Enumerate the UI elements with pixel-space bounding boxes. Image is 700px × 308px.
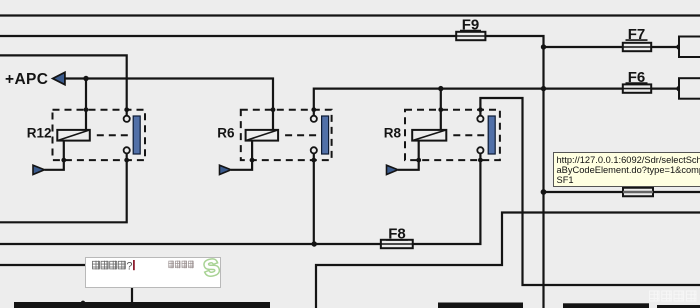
relay R6 contact terminal circle (bottom) bbox=[311, 147, 317, 153]
wire R6 contact to F6 rail bbox=[314, 89, 679, 116]
input text 唰唰啪啪 (pseudo glyphs) bbox=[92, 260, 133, 272]
watermark 汽车之家 bbox=[649, 291, 696, 302]
wire branch to R12 contact bbox=[0, 55, 127, 115]
fuse F9 body bbox=[456, 32, 485, 40]
relay R12 input arrow bbox=[33, 165, 45, 174]
wire F8 rail up to R8 contact bottom bbox=[0, 153, 480, 244]
pin R6 coil- on enclosure bbox=[250, 158, 255, 163]
pin R8 coil+ on enclosure bbox=[438, 107, 443, 112]
wire bus top rail bbox=[0, 14, 700, 16]
label F7 bbox=[626, 26, 648, 43]
wire R6 contact bottom drop bbox=[313, 153, 315, 244]
relay R12 contact blade (blue bar) bbox=[133, 116, 140, 154]
wire +APC branch to R12 coil bbox=[85, 79, 87, 130]
IME hint 临时拼音 (pseudo glyphs) bbox=[168, 261, 193, 269]
wire R6 coil return to arrow bbox=[231, 141, 252, 170]
wire SF1 rail bbox=[544, 191, 700, 193]
node +APC arrow bbox=[53, 72, 65, 84]
relay R12 coil bbox=[57, 130, 90, 141]
connector bar bottom-far-right bbox=[657, 305, 700, 308]
relay R8 contact blade (blue bar) bbox=[488, 116, 495, 154]
relay R12 contact terminal circle (bottom) bbox=[124, 147, 130, 153]
node R6-contact/F8-rail junction bbox=[312, 241, 317, 246]
node F7 load-box pin bbox=[676, 44, 681, 49]
Sogou IME logo bbox=[202, 254, 222, 282]
relay R6 dashed enclosure bbox=[241, 110, 332, 160]
node R8-coil junction bbox=[438, 86, 443, 91]
wire F9 rail into vertical drop at x=543 bbox=[0, 36, 544, 308]
relay R12 dashed enclosure bbox=[53, 110, 146, 160]
relay R8 dashed enclosure bbox=[405, 110, 500, 160]
input textbox overlay bbox=[85, 257, 221, 288]
pin R6 contact-in on enclosure bbox=[311, 107, 316, 112]
pin R12 coil- on enclosure bbox=[61, 158, 66, 163]
relay R8 input arrow bbox=[387, 165, 399, 174]
svg-text:S: S bbox=[202, 254, 222, 282]
load box after F6 bbox=[679, 78, 700, 99]
relay R8 contact terminal circle (bottom) bbox=[477, 147, 483, 153]
wire R8 coil return to arrow bbox=[398, 141, 419, 170]
fuse F7 body bbox=[623, 43, 651, 51]
relay R6 coil bbox=[246, 130, 279, 141]
wire lower-right loop bbox=[316, 213, 700, 308]
load box after F7 bbox=[679, 37, 700, 58]
relay R6 contact blade (blue bar) bbox=[322, 116, 329, 154]
relay R6 contact terminal circle (top) bbox=[311, 116, 317, 122]
node lower-left stub bbox=[81, 301, 85, 305]
relay R8 contact terminal circle (top) bbox=[477, 116, 483, 122]
tooltip URL popup bbox=[553, 152, 700, 188]
relay R6 input arrow bbox=[220, 165, 232, 174]
pin R12 coil+ on enclosure bbox=[84, 107, 89, 112]
wire R12 coil return to arrow bbox=[45, 141, 64, 170]
relay R12 mechanical link (dashed) bbox=[97, 134, 129, 136]
pin R6 contact-out on enclosure bbox=[311, 158, 316, 163]
node F6-rail junction bbox=[541, 86, 546, 91]
label F6 bbox=[626, 69, 648, 86]
wire lower-left segment (behind input box) bbox=[0, 265, 132, 303]
label F8 bbox=[386, 226, 408, 243]
fuse F8 body bbox=[381, 240, 413, 248]
wire F6 rail branch to R8 coil bbox=[440, 89, 442, 130]
node SF1-rail junction bbox=[541, 189, 547, 195]
node F7-branch junction bbox=[541, 44, 546, 49]
input caret (red) bbox=[133, 260, 135, 270]
svg-text:?: ? bbox=[126, 260, 132, 272]
pin R8 coil- on enclosure bbox=[416, 158, 421, 163]
relay R8 mechanical link (dashed) bbox=[453, 134, 484, 136]
connector bar bottom-middle bbox=[438, 303, 523, 308]
wire R8 contact top to right rail bbox=[480, 98, 700, 285]
relay R12 contact terminal circle (top) bbox=[124, 116, 130, 122]
fuse F6 body bbox=[623, 84, 651, 92]
relay R8 coil bbox=[412, 130, 446, 141]
fuse SF1 body (highlighted) bbox=[623, 188, 653, 197]
wire F7 branch bbox=[544, 46, 680, 48]
pin R8 contact-out on enclosure bbox=[478, 158, 483, 163]
pin R12 contact-out on enclosure bbox=[124, 158, 129, 163]
pin R12 contact-in on enclosure bbox=[124, 107, 129, 112]
pin R8 contact-in on enclosure bbox=[478, 107, 483, 112]
relay R6 mechanical link (dashed) bbox=[285, 134, 318, 136]
connector bar bottom-right bbox=[563, 303, 649, 308]
label F9 bbox=[460, 16, 481, 33]
wire R12 contact bottom to left edge bbox=[0, 153, 127, 222]
pin R6 coil+ on enclosure bbox=[271, 107, 276, 112]
node +APC/R12-coil junction bbox=[83, 76, 88, 81]
wire +APC feed to R6 coil bbox=[65, 79, 273, 130]
connector bar bottom-left bbox=[14, 302, 270, 308]
node F6 load-box pin bbox=[676, 86, 681, 91]
